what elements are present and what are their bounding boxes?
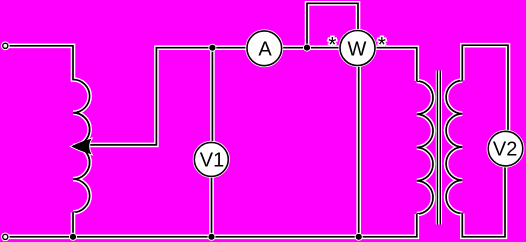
voltmeter V1 [194,142,228,176]
junction at top node of V1 [208,44,216,52]
svg-text:A: A [258,39,272,61]
wire from autotransformer bottom to bottom rail [71,212,76,236]
polarity mark * (left of W) [328,33,336,56]
wire from top node down to voltmeter V1 [210,48,215,144]
transformer T1 primary winding [417,81,433,214]
junction at bottom rail / variac [69,233,77,241]
bottom rail wire up to transformer primary bottom [8,214,417,237]
svg-text:*: * [328,33,336,56]
junction at bottom rail / wattmeter [355,233,363,241]
inductor L1 (variac / autotransformer winding) [73,76,90,212]
svg-text:W: W [348,39,367,61]
wire from wattmeter to transformer primary top [375,48,417,81]
voltmeter V2 [488,131,523,166]
svg-text:*: * [378,33,386,56]
polarity mark * (right of W) [378,33,386,56]
wire from wiper tap up and right to ammeter [86,48,247,145]
wire from input terminal to autotransformer top [8,46,73,80]
transformer core [437,71,440,225]
wire from voltmeter V1 bottom to bottom rail [209,176,214,237]
ammeter A [247,31,282,66]
input terminal (bottom) [3,234,8,239]
junction at wattmeter bridge tap [303,44,311,52]
wattmeter W [340,31,375,66]
transformer T1 secondary winding [446,81,462,214]
wire from wattmeter bottom to bottom rail [356,65,361,237]
wire from secondary top to voltmeter V2 [462,45,508,131]
wire from voltmeter V2 bottom to secondary bottom [462,165,505,237]
wire bridging wattmeter (current-coil jumper over W) [307,3,358,47]
svg-text:V1: V1 [200,150,224,172]
wire from ammeter to wattmeter [282,45,340,50]
inductor L1 winding arcs (overlay across wiper) [73,113,90,179]
svg-text:V2: V2 [493,138,517,160]
junction at bottom rail / V1 [208,233,216,241]
input terminal (top) [3,43,8,48]
wiper arrow of variac [71,139,91,155]
